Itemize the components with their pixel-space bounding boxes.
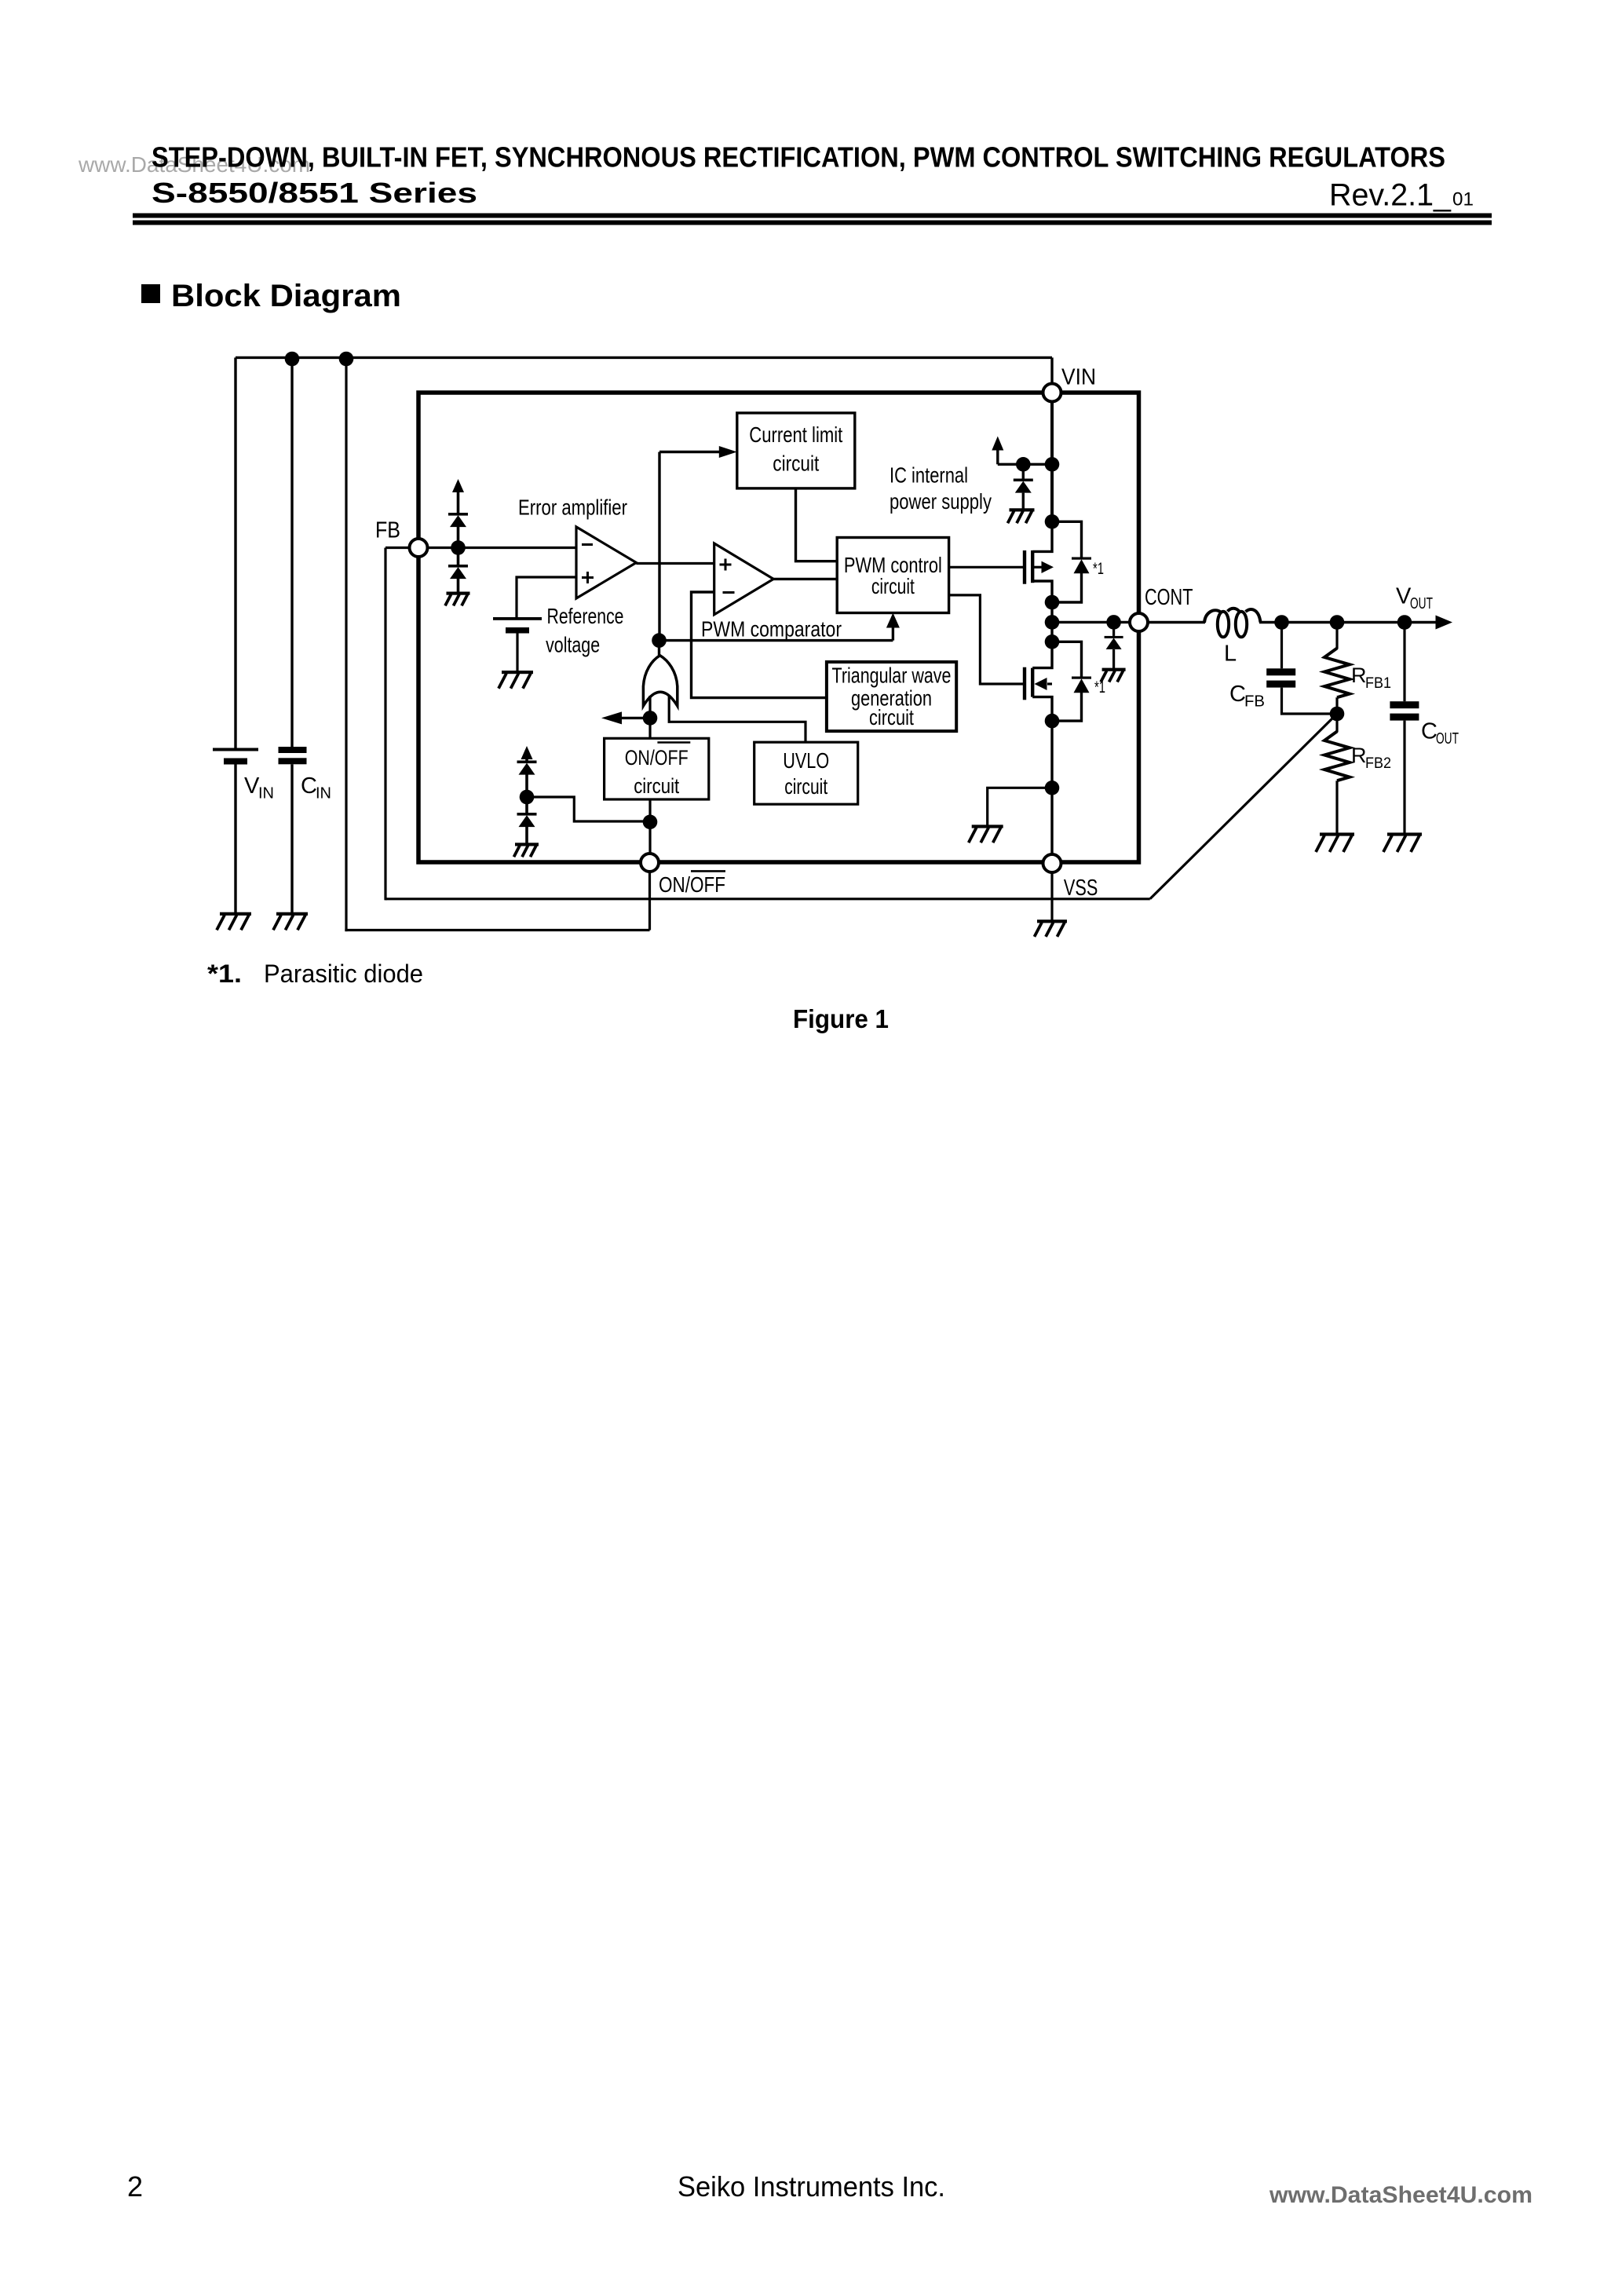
svg-text:CONT: CONT: [1145, 585, 1193, 610]
comparator PWM: [714, 543, 774, 615]
op-amp error amplifier: [576, 527, 636, 598]
IC boundary: [418, 393, 1139, 862]
wire: current limit to PWM control: [796, 488, 838, 561]
wire: OR left input: [648, 696, 651, 738]
junction: lower FET drain node: [1045, 634, 1060, 649]
wire: VSS internal ground branch: [988, 788, 1052, 826]
junction: shutdown node: [652, 633, 667, 648]
wire: lower diode branch bottom: [1052, 691, 1082, 721]
header double rule: [133, 214, 1492, 218]
inductor L: [1204, 609, 1261, 638]
ground (RFB2): [1316, 832, 1354, 852]
wire: CONT to inductor: [1148, 621, 1205, 623]
svg-text:circuit: circuit: [869, 705, 914, 729]
svg-text:OUT: OUT: [1436, 730, 1459, 748]
svg-text:FB: FB: [375, 518, 400, 543]
diode *1 lower parasitic: [1072, 677, 1091, 693]
svg-text:IN: IN: [258, 785, 274, 803]
capacitor CIN: [279, 747, 307, 912]
svg-text:C: C: [301, 773, 317, 799]
ground (battery VIN): [217, 912, 251, 930]
ground (CIN): [273, 912, 308, 930]
svg-text:Figure 1: Figure 1: [793, 1004, 889, 1033]
PWM comp plus: [720, 564, 732, 566]
error amp minus: [582, 543, 593, 546]
diode (IC supply ESD): [1022, 464, 1025, 478]
svg-text:www.DataSheet4U.com: www.DataSheet4U.com: [1269, 2182, 1532, 2208]
capacitor CFB: [1266, 623, 1337, 715]
wire: IC supply branch: [998, 463, 1052, 466]
ground (FB ESD): [445, 592, 470, 606]
svg-text:Triangular wave: Triangular wave: [832, 664, 952, 688]
junction: supply diode tap: [1016, 457, 1031, 472]
svg-text:VSS: VSS: [1064, 876, 1098, 901]
ESD stack (FB): lower wire: [457, 579, 460, 593]
junction: feedback node: [1330, 707, 1345, 722]
ground (COUT): [1383, 832, 1422, 852]
svg-text:circuit: circuit: [773, 452, 819, 476]
svg-text:*1.: *1.: [207, 960, 242, 988]
wire: ON/OFF box to pin: [648, 799, 651, 854]
ESD stack (ON/OFF): mid wire: [525, 775, 528, 813]
resistor RFB2: [1324, 714, 1350, 834]
wire: CONT to lower FET: [1050, 622, 1053, 642]
svg-text:*1: *1: [1093, 560, 1104, 578]
wire: source to CONT node: [1050, 602, 1053, 622]
wire: current limit feed: [659, 451, 720, 453]
ESD stack (FB): arrow up: [457, 492, 460, 513]
wire: error amp out: [636, 562, 714, 565]
transistor lower NMOS: [1025, 642, 1052, 721]
wire: ON/OFF feed up to pin: [648, 872, 651, 930]
ESD stack (ON/OFF): arrow up: [525, 759, 528, 761]
svg-text:OUT: OUT: [1410, 595, 1433, 612]
wire: CIN drop: [290, 359, 293, 748]
svg-text:power supply: power supply: [890, 489, 992, 514]
battery reference voltage: [493, 617, 542, 671]
ESD stack (FB): diode D-a: [448, 513, 468, 527]
svg-text:ON/OFF: ON/OFF: [625, 746, 689, 770]
pin ON/OFF: [641, 854, 659, 872]
transistor upper PMOS: [1025, 521, 1054, 602]
wire: FB to error amp: [426, 547, 576, 549]
svg-text:circuit: circuit: [871, 574, 915, 598]
svg-text:voltage: voltage: [546, 633, 600, 657]
OR gate: [643, 656, 677, 706]
svg-text:IC internal: IC internal: [890, 462, 968, 487]
wire: PWM comp out: [773, 578, 837, 580]
wire: source to VSS: [1050, 721, 1053, 854]
pin VIN: [1043, 384, 1061, 402]
wire: upper diode branch bottom: [1052, 572, 1082, 602]
wire: FB external drop: [384, 548, 386, 901]
svg-text:V: V: [244, 773, 260, 799]
junction: VSS branch: [1045, 781, 1060, 795]
battery VIN: [213, 748, 258, 913]
ground (IC supply): [1008, 508, 1035, 523]
wire: ON/OFF feed down: [345, 359, 347, 931]
svg-text:FB2: FB2: [1365, 755, 1391, 772]
svg-text:Rev.2.1_: Rev.2.1_: [1329, 178, 1452, 213]
resistor RFB1: [1324, 623, 1350, 715]
svg-text:ON/OFF: ON/OFF: [659, 872, 725, 897]
ground (ON/OFF ESD): [514, 843, 539, 857]
reference wire to + input: [517, 577, 576, 617]
svg-text:Seiko Instruments Inc.: Seiko Instruments Inc.: [678, 2170, 945, 2203]
junction: FB ESD tap: [451, 540, 466, 555]
junction: COUT tap: [1397, 615, 1412, 630]
pin CONT: [1130, 613, 1148, 631]
junction: supply tap: [1045, 457, 1060, 472]
PWM comp minus: [723, 591, 735, 594]
svg-text:circuit: circuit: [634, 774, 679, 798]
svg-text:C: C: [1421, 719, 1438, 744]
svg-text:Reference: Reference: [547, 604, 624, 628]
ESD stack (ON/OFF): jog wire: [527, 797, 650, 821]
junction: CONT node: [1045, 615, 1060, 630]
junction: stack mid: [520, 790, 535, 805]
block triangular wave generation circuit: [827, 662, 956, 731]
block ON/OFF circuit: [605, 738, 709, 799]
junction: ON/OFF tap: [339, 352, 354, 367]
junction: ON/OFF sense: [643, 711, 658, 726]
svg-text:Block Diagram: Block Diagram: [171, 279, 401, 313]
svg-text:*1: *1: [1094, 678, 1105, 696]
svg-text:IN: IN: [316, 785, 331, 803]
junction: ON/OFF ESD tap: [643, 815, 658, 830]
wire: OR right input: [669, 696, 806, 742]
svg-text:L: L: [1224, 642, 1237, 667]
wire: FB feedback bottom: [385, 898, 1150, 900]
wire: battery drop: [234, 357, 236, 748]
junction: CIN tap: [285, 352, 300, 367]
junction: CONT ESD tap: [1106, 615, 1121, 630]
junction: CFB tap: [1274, 615, 1289, 630]
ground (reference voltage): [499, 671, 533, 689]
svg-text:R: R: [1351, 744, 1367, 767]
ground (internal VSS): [969, 824, 1003, 843]
arrow: ON/OFF sense out: [620, 717, 650, 719]
wire: CONT internal: [1052, 621, 1130, 623]
junction: RFB1 tap: [1330, 615, 1345, 630]
block UVLO circuit: [754, 742, 858, 804]
ground (VSS): [1035, 919, 1068, 937]
svg-text:R: R: [1351, 664, 1367, 687]
ESD stack (ON/OFF): diode D-d: [517, 813, 537, 827]
svg-text:01: 01: [1452, 189, 1474, 210]
svg-text:C: C: [1229, 682, 1246, 707]
ESD stack (FB): diode D-b: [448, 565, 468, 579]
wire: ON/OFF feed bottom: [345, 929, 649, 931]
wire: VOUT rail: [1259, 621, 1437, 623]
svg-text:circuit: circuit: [784, 774, 827, 799]
wire: FB pin stub: [385, 547, 411, 549]
diode (CONT ESD): [1112, 622, 1115, 636]
wire: lower diode branch top: [1052, 642, 1082, 676]
svg-text:2: 2: [127, 2170, 143, 2203]
junction: lower FET source node: [1045, 714, 1060, 729]
wire: upper FET gate: [949, 566, 1023, 569]
wire: VIN top rail: [236, 356, 1052, 359]
svg-text:FB1: FB1: [1365, 675, 1391, 692]
wire: lower FET gate: [949, 595, 1023, 684]
svg-text:PWM comparator: PWM comparator: [701, 617, 842, 642]
svg-text:STEP-DOWN, BUILT-IN FET, SYNCH: STEP-DOWN, BUILT-IN FET, SYNCHRONOUS REC…: [152, 141, 1445, 174]
junction: upper FET source node: [1045, 595, 1060, 610]
svg-text:UVLO: UVLO: [783, 748, 829, 773]
svg-text:VIN: VIN: [1061, 364, 1096, 389]
wire: VSS external: [1050, 872, 1053, 921]
wire: upper diode branch top: [1052, 521, 1082, 557]
svg-text:V: V: [1396, 583, 1412, 609]
svg-text:FB: FB: [1244, 693, 1265, 711]
svg-text:Current limit: Current limit: [749, 422, 842, 447]
ESD stack (FB): mid wire: [457, 527, 460, 565]
wire: shutdown to PWM control: [659, 639, 893, 642]
wire: VIN pin drop: [1050, 357, 1053, 389]
wire: OR out to dot: [658, 641, 660, 656]
ground (CONT ESD): [1101, 668, 1126, 682]
diode *1 upper parasitic: [1072, 558, 1091, 574]
wire: triangular to - input: [692, 592, 827, 698]
svg-text:Parasitic diode: Parasitic diode: [264, 960, 423, 988]
ESD stack (ON/OFF): lower wire: [525, 827, 528, 844]
error amp plus: [582, 576, 594, 579]
block PWM control circuit: [837, 538, 948, 613]
wire: current limit vertical: [658, 452, 660, 641]
wire: VIN internal vertical: [1050, 402, 1054, 522]
section bullet: [141, 284, 160, 303]
pin VSS: [1043, 854, 1061, 872]
ESD stack (ON/OFF): diode D-c: [517, 761, 537, 775]
capacitor COUT: [1390, 623, 1419, 835]
svg-text:S-8550/8551 Series: S-8550/8551 Series: [152, 177, 477, 209]
wire: FB feedback diagonal: [1150, 714, 1337, 899]
svg-text:Error amplifier: Error amplifier: [518, 495, 627, 519]
pin FB: [410, 539, 428, 557]
block current limit circuit: [737, 413, 855, 488]
junction: upper FET drain node: [1045, 514, 1060, 529]
